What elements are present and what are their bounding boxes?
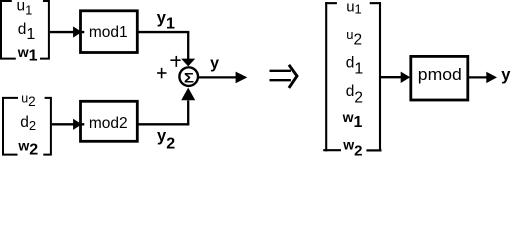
- wire pmod to output arrow: [469, 76, 488, 78]
- svg-text:y: y: [210, 55, 219, 72]
- wire V2 to mod2: [52, 123, 84, 125]
- block mod2: [81, 101, 138, 141]
- svg-text:mod2: mod2: [89, 115, 128, 132]
- implies arrow top bar: [270, 70, 291, 72]
- arrowhead into mod1: [73, 26, 82, 37]
- vector bracket V2 right: [43, 98, 51, 155]
- bracket V3 top-left serif: [325, 2, 337, 4]
- implies arrow chevron: [289, 65, 297, 88]
- block pmod: [411, 56, 468, 100]
- vector bracket V2 left: [3, 98, 18, 155]
- bracket V3 bottom-right serif: [366, 149, 381, 151]
- wire sum to output arrow: [198, 76, 237, 78]
- wire mod2 to corner: [138, 123, 189, 125]
- wire corner down to sum: [187, 32, 189, 59]
- plus sign left input: [157, 72, 166, 74]
- svg-text:mod1: mod1: [89, 24, 128, 41]
- bracket V3 top-right serif: [370, 2, 381, 4]
- arrowhead into sum bottom: [181, 88, 195, 101]
- svg-text:u1: u1: [346, 0, 362, 17]
- svg-text:pmod: pmod: [418, 66, 462, 84]
- arrowhead into pmod: [401, 72, 411, 83]
- wire V1 to mod1: [50, 31, 84, 33]
- arrowhead output y: [236, 72, 248, 84]
- vector bracket V1 right: [40, 1, 49, 59]
- svg-text:Σ: Σ: [184, 71, 194, 86]
- wire corner up to sum: [187, 100, 189, 124]
- vector bracket V3 right vertical: [379, 2, 381, 151]
- summing junction circle: [179, 67, 198, 86]
- bracket V3 bottom-left serif: [323, 149, 341, 151]
- svg-text:y: y: [501, 66, 511, 84]
- arrowhead into sum top: [181, 59, 195, 67]
- vector bracket V1 left: [1, 1, 16, 59]
- wire V3 to pmod: [381, 76, 402, 78]
- implies arrow bottom bar: [270, 79, 291, 81]
- arrowhead final y: [486, 72, 497, 83]
- plus sign top input: [170, 59, 180, 61]
- wire mod1 to corner: [138, 31, 189, 33]
- arrowhead into mod2: [73, 119, 82, 130]
- block mod1: [81, 11, 138, 53]
- vector bracket V3 left vertical: [325, 2, 327, 151]
